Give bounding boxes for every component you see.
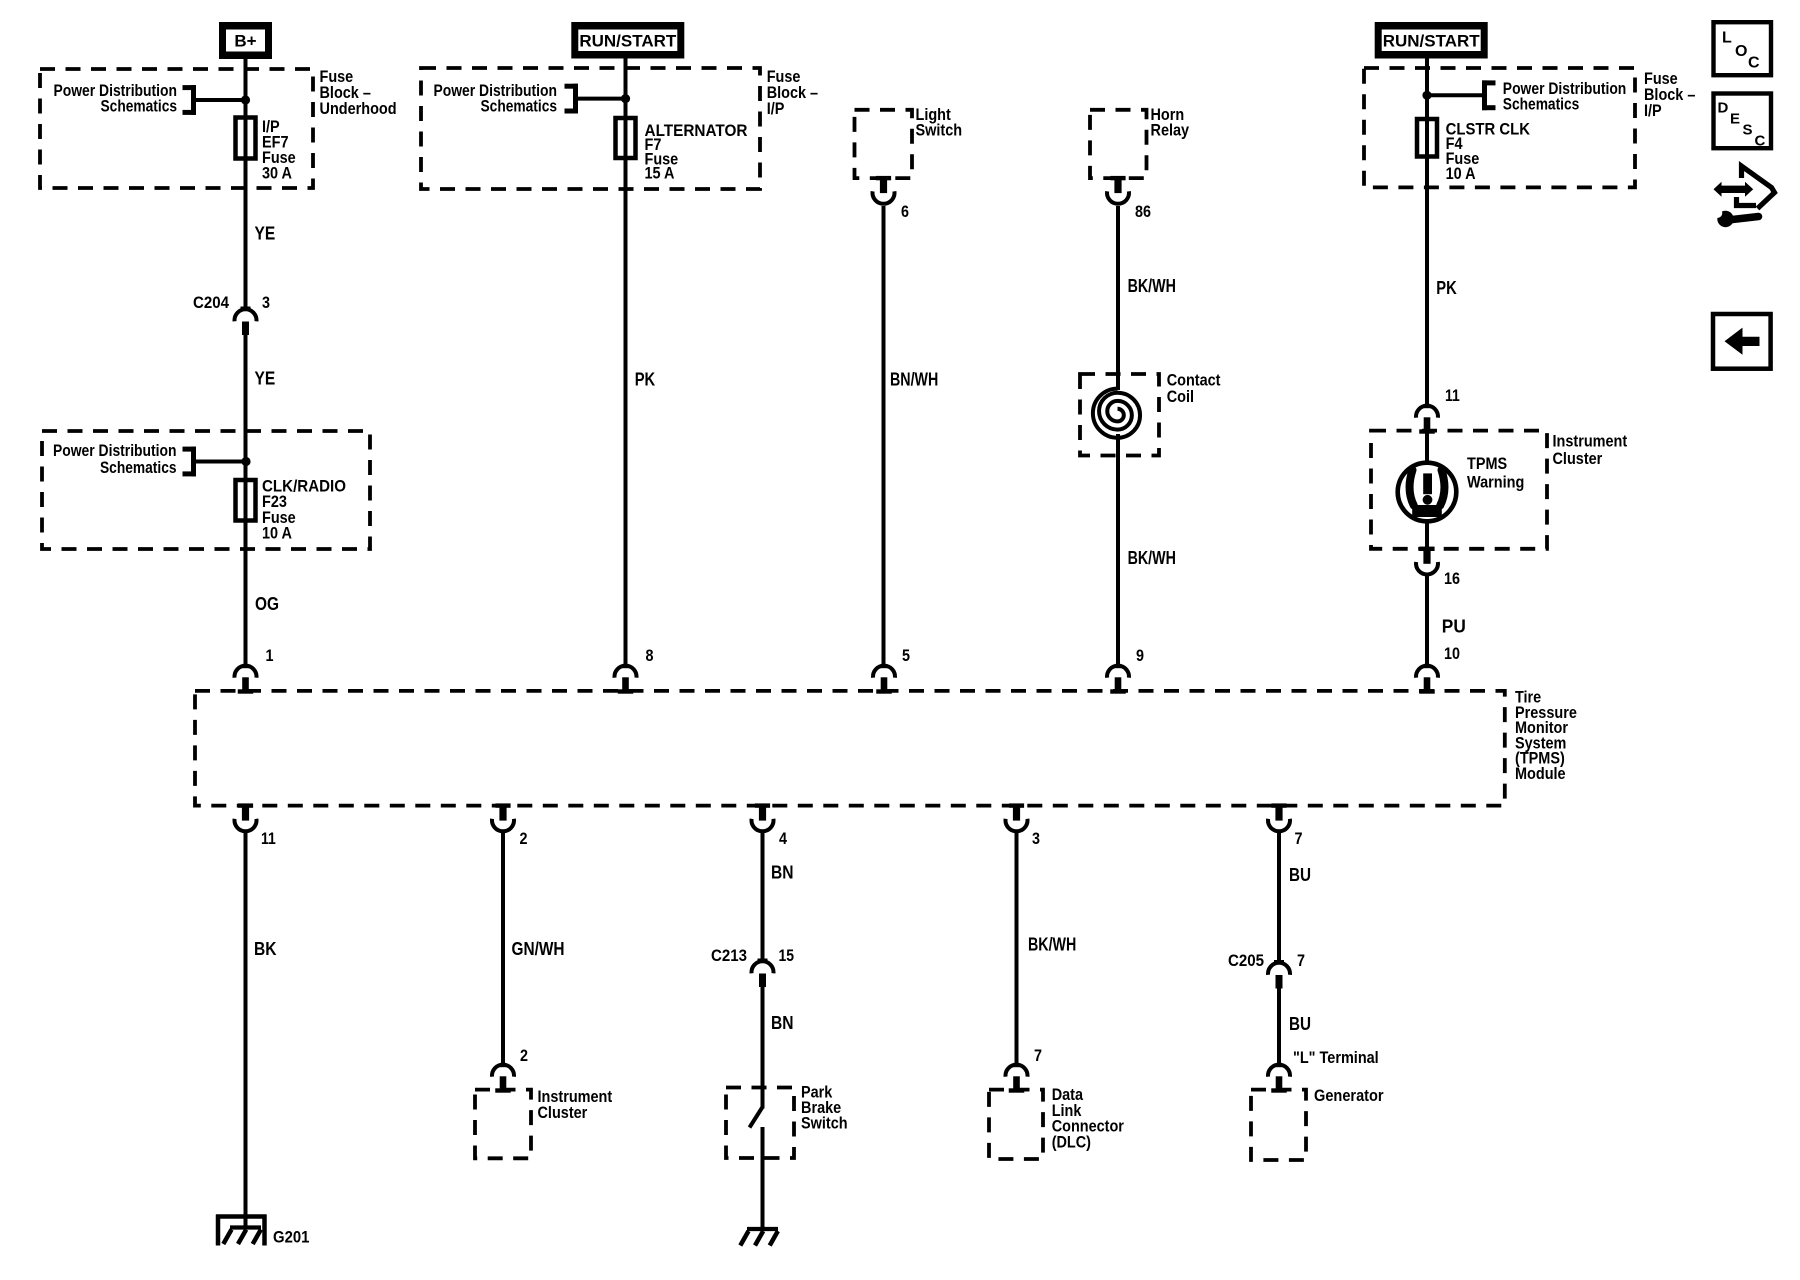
ground G201 bbox=[216, 1215, 267, 1246]
svg-text:G201: G201 bbox=[273, 1228, 309, 1247]
svg-text:BU: BU bbox=[1289, 1014, 1311, 1034]
svg-text:GN/WH: GN/WH bbox=[512, 939, 565, 959]
svg-text:C: C bbox=[1748, 55, 1760, 72]
park brake switch blade bbox=[750, 1107, 763, 1128]
svg-text:YE: YE bbox=[255, 224, 276, 244]
svg-text:2: 2 bbox=[520, 1046, 528, 1065]
RUN/START power feed box (left) bbox=[571, 22, 684, 59]
bracket Power Distribution Schematics (CLK/RADIO box) bbox=[183, 447, 197, 477]
svg-text:S: S bbox=[1743, 122, 1753, 139]
dashed box Instrument Cluster (bottom) bbox=[475, 1090, 531, 1159]
wire power distribution tap (B+ box) bbox=[194, 98, 246, 102]
TPMS module pin 7 bbox=[1268, 803, 1290, 831]
fuse ALTERNATOR F7 15A bbox=[616, 118, 636, 158]
icon DESC button bbox=[1714, 94, 1772, 150]
dashed box Data Link Connector bbox=[989, 1090, 1043, 1159]
wire BK/WH wire contact coil to TPMS pin 9 bbox=[1116, 434, 1120, 666]
TPMS module pin 1 bbox=[235, 665, 257, 694]
wire BU wire C205 to generator bbox=[1277, 989, 1281, 1066]
RUN/START power feed box (right) bbox=[1375, 22, 1488, 59]
svg-text:C205: C205 bbox=[1228, 951, 1264, 970]
dashed box Fuse Block - I/P (left) bbox=[421, 68, 760, 189]
svg-text:"L" Terminal: "L" Terminal bbox=[1293, 1048, 1379, 1067]
TPMS module pin 4 bbox=[752, 803, 774, 831]
instrument cluster pin 16 bbox=[1416, 547, 1438, 575]
svg-text:86: 86 bbox=[1135, 202, 1151, 221]
svg-text:BU: BU bbox=[1289, 865, 1311, 885]
TPMS warning indicator bbox=[1398, 463, 1457, 522]
svg-text:C204: C204 bbox=[193, 293, 229, 312]
dashed box Fuse Block - Underhood bbox=[40, 69, 313, 188]
wire BN wire pin 4 to C213 bbox=[761, 832, 765, 960]
TPMS module pin 5 bbox=[873, 665, 895, 694]
svg-text:2: 2 bbox=[520, 829, 528, 848]
svg-text:3: 3 bbox=[262, 293, 270, 312]
B+ power feed box bbox=[219, 22, 272, 59]
ground (park brake switch) bbox=[740, 1229, 778, 1246]
junction node at ALTERNATOR fuse bbox=[621, 94, 630, 103]
dashed box Fuse Block (CLK/RADIO fuse) bbox=[42, 431, 370, 549]
svg-text:YE: YE bbox=[255, 369, 276, 389]
svg-text:16: 16 bbox=[1444, 569, 1460, 588]
wire BN/WH wire light switch to TPMS pin 5 bbox=[882, 206, 886, 666]
wire power distribution tap (CLK/RADIO box) bbox=[194, 460, 246, 464]
icon LOC button bbox=[1714, 22, 1772, 75]
dashed box Fuse Block - I/P (right) bbox=[1364, 68, 1635, 187]
svg-text:RUN/START: RUN/START bbox=[1383, 32, 1481, 51]
fuse CLK/RADIO F23 10A bbox=[236, 480, 256, 521]
svg-text:PK: PK bbox=[635, 370, 656, 390]
svg-text:7: 7 bbox=[1297, 951, 1305, 970]
fuse I/P EF7 30A bbox=[236, 118, 256, 159]
junction node at I/P EF7 fuse bbox=[241, 95, 250, 104]
wire power distribution tap (alternator fuse) bbox=[578, 97, 626, 101]
svg-text:9: 9 bbox=[1136, 646, 1144, 665]
icon back arrow button bbox=[1713, 314, 1771, 369]
svg-text:5: 5 bbox=[902, 646, 910, 665]
wire BN wire C213 to park brake switch bbox=[761, 987, 765, 1109]
svg-text:HornRelay: HornRelay bbox=[1151, 105, 1190, 139]
wire BK/WH wire horn relay to contact coil bbox=[1116, 206, 1120, 390]
wire YE/OG feed to TPMS pin 1 bbox=[244, 335, 248, 666]
TPMS module pin 3 bbox=[1006, 803, 1028, 831]
generator L terminal pin bbox=[1268, 1064, 1290, 1093]
wire PK wire CLSTR CLK fuse to instrument cluster pin 11 bbox=[1425, 58, 1429, 406]
svg-text:O: O bbox=[1735, 43, 1747, 60]
svg-text:3: 3 bbox=[1032, 829, 1040, 848]
svg-text:BN/WH: BN/WH bbox=[890, 370, 938, 390]
dashed box TPMS Module bbox=[195, 691, 1505, 806]
connector C205 pin 7 bbox=[1268, 960, 1290, 989]
TPMS module pin 2 bbox=[492, 803, 514, 831]
DLC pin 7 bbox=[1006, 1064, 1028, 1093]
dashed box Contact Coil bbox=[1080, 374, 1159, 456]
svg-text:BK/WH: BK/WH bbox=[1128, 276, 1176, 296]
instrument cluster pin 2 (bottom) bbox=[492, 1064, 514, 1093]
wire B+ feed to C204 bbox=[244, 58, 248, 308]
TPMS module pin 10 bbox=[1416, 665, 1438, 694]
junction node at CLSTR CLK fuse bbox=[1422, 91, 1431, 100]
svg-text:11: 11 bbox=[1445, 386, 1460, 405]
TPMS module pin 8 bbox=[615, 665, 637, 694]
bracket Power Distribution Schematics (alternator) bbox=[565, 84, 579, 114]
svg-text:8: 8 bbox=[646, 646, 654, 665]
svg-text:OG: OG bbox=[255, 594, 279, 614]
fuse CLSTR CLK F4 10A bbox=[1417, 119, 1437, 157]
wire BU wire pin 7 to C205 bbox=[1277, 832, 1281, 961]
svg-text:BN: BN bbox=[771, 863, 794, 883]
instrument cluster pin 11 bbox=[1416, 405, 1438, 434]
dashed box Park Brake Switch bbox=[726, 1088, 794, 1159]
svg-text:RUN/START: RUN/START bbox=[579, 32, 677, 51]
junction node at CLK/RADIO fuse bbox=[241, 457, 250, 466]
svg-text:E: E bbox=[1730, 111, 1740, 128]
TPMS module pin 9 bbox=[1107, 665, 1129, 694]
light switch pin 6 bbox=[873, 176, 895, 204]
svg-text:7: 7 bbox=[1295, 829, 1303, 848]
contact coil spiral bbox=[1093, 389, 1140, 438]
dashed box Light Switch bbox=[855, 110, 913, 178]
svg-text:BN: BN bbox=[771, 1013, 794, 1033]
bracket Power Distribution Schematics (B+ box) bbox=[183, 85, 197, 115]
wire BK/WH wire pin 3 to DLC bbox=[1015, 832, 1019, 1065]
dashed box Horn Relay bbox=[1090, 110, 1147, 178]
svg-text:6: 6 bbox=[901, 202, 909, 221]
wire into TPMS warning lamp bbox=[1425, 430, 1429, 463]
icon diagnostic wrench arrow bbox=[1712, 166, 1774, 227]
dashed box Generator bbox=[1251, 1090, 1306, 1160]
svg-text:10: 10 bbox=[1444, 644, 1460, 663]
svg-text:1: 1 bbox=[266, 646, 274, 665]
svg-text:BK/WH: BK/WH bbox=[1128, 548, 1176, 568]
wire power distribution tap (CLSTR CLK fuse) bbox=[1427, 93, 1484, 97]
svg-text:C213: C213 bbox=[711, 946, 747, 965]
wire PK wire ALTERNATOR fuse to TPMS pin 8 bbox=[624, 58, 628, 666]
svg-text:4: 4 bbox=[779, 829, 787, 848]
svg-text:7: 7 bbox=[1034, 1046, 1042, 1065]
connector C213 pin 15 bbox=[752, 959, 774, 988]
svg-text:PU: PU bbox=[1442, 617, 1466, 637]
svg-text:B+: B+ bbox=[234, 32, 256, 51]
svg-text:C: C bbox=[1755, 133, 1766, 150]
svg-text:Generator: Generator bbox=[1314, 1086, 1384, 1105]
svg-text:D: D bbox=[1718, 100, 1729, 117]
svg-text:PK: PK bbox=[1436, 278, 1457, 298]
bracket Power Distribution Schematics (right) bbox=[1482, 80, 1496, 110]
wire from TPMS warning lamp bbox=[1425, 521, 1429, 549]
TPMS module pin 11 bbox=[235, 803, 257, 831]
svg-text:BK: BK bbox=[254, 939, 277, 959]
svg-text:L: L bbox=[1722, 29, 1732, 46]
wire GN/WH wire pin 2 to instrument cluster bbox=[501, 832, 505, 1065]
wire PU wire to TPMS pin 10 bbox=[1425, 574, 1429, 666]
svg-text:15: 15 bbox=[779, 946, 795, 965]
connector C204 pin 3 bbox=[235, 307, 257, 336]
dashed box Instrument Cluster (TPMS warning) bbox=[1371, 431, 1547, 549]
wire wire park brake switch to ground bbox=[761, 1127, 765, 1229]
horn relay pin 86 bbox=[1107, 176, 1129, 204]
svg-text:11: 11 bbox=[261, 829, 276, 848]
svg-text:BK/WH: BK/WH bbox=[1028, 935, 1076, 955]
wire BK ground wire to G201 bbox=[244, 832, 248, 1229]
